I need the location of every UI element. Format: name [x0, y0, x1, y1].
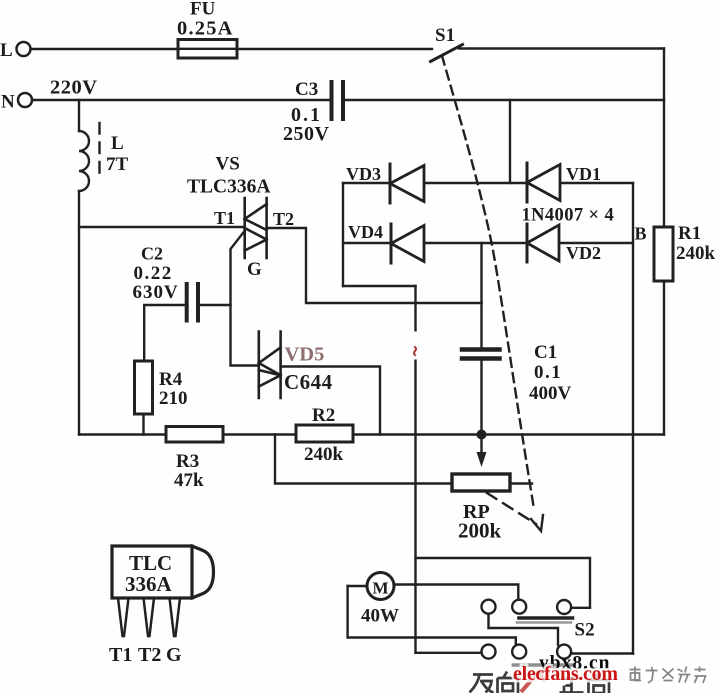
wire bridge output vertical	[414, 286, 416, 653]
svg-text:0.1: 0.1	[534, 362, 562, 383]
svg-text:T2: T2	[273, 209, 294, 229]
svg-text:7T: 7T	[106, 154, 129, 175]
wire right vertical top	[663, 49, 665, 228]
wire N row left	[32, 99, 330, 101]
svg-text:C1: C1	[534, 342, 557, 363]
svg-text:G: G	[247, 259, 262, 280]
wire bridge row2	[343, 242, 391, 244]
svg-text:0.25A: 0.25A	[177, 18, 234, 40]
S2 contact F	[557, 645, 571, 659]
wire T1	[79, 226, 245, 228]
wire T2	[267, 228, 482, 303]
wire motor left	[348, 585, 367, 587]
diac VD5 C644	[259, 332, 281, 399]
svg-text:L: L	[111, 133, 124, 154]
text zhengxiang	[560, 674, 610, 693]
S2 contact A	[482, 600, 496, 614]
RP wiper arrow	[480, 439, 482, 457]
dashed linkage RP branch	[487, 493, 536, 524]
diode VD2	[527, 224, 559, 262]
svg-text:G: G	[166, 644, 182, 666]
svg-text:40W: 40W	[361, 606, 399, 627]
S2 contact C	[557, 600, 571, 614]
S2 contact B	[512, 600, 526, 614]
svg-text:S1: S1	[435, 25, 455, 46]
wire A to F	[489, 614, 559, 645]
wire left vertical upper	[78, 100, 80, 131]
wire to contact D	[416, 652, 482, 654]
package legs	[118, 598, 180, 636]
wire F to B line	[571, 652, 633, 654]
triac VS TLC336A	[245, 198, 267, 258]
svg-text:C3: C3	[295, 79, 318, 100]
svg-text:C2: C2	[141, 244, 163, 264]
svg-text:B: B	[635, 224, 647, 244]
wire C2 left to R4	[144, 305, 187, 361]
wire main row seg3	[353, 433, 664, 435]
svg-text:R1: R1	[678, 223, 701, 244]
svg-text:T2: T2	[138, 644, 161, 666]
bridge left vertical	[342, 183, 344, 286]
diode VD3	[390, 164, 424, 203]
node junction dot	[477, 430, 487, 440]
svg-text:0.22: 0.22	[134, 263, 173, 284]
diode VD1	[527, 163, 560, 202]
terminal L	[17, 42, 31, 56]
svg-text:L: L	[0, 40, 13, 61]
wire left vertical lower	[78, 191, 80, 435]
svg-text:VD1: VD1	[566, 164, 601, 184]
motor M	[367, 573, 394, 600]
svg-text:elecfans.com: elecfans.com	[513, 663, 618, 685]
svg-text:T1: T1	[109, 644, 132, 666]
diode VD4	[391, 224, 424, 263]
svg-text:400V: 400V	[529, 383, 572, 404]
fuse FU	[178, 40, 237, 59]
red caret mark	[521, 672, 545, 693]
wire junction drop x275	[275, 435, 452, 484]
svg-text:210: 210	[159, 388, 188, 409]
wire row2 drop to C1	[480, 243, 482, 303]
S2 contact D	[482, 645, 496, 659]
svg-text:R2: R2	[312, 405, 335, 426]
wire bridge row1	[343, 182, 390, 184]
svg-text:VD3: VD3	[346, 164, 381, 184]
svg-text:R4: R4	[159, 369, 183, 390]
wire main row seg2	[223, 433, 296, 435]
svg-text:630V: 630V	[133, 282, 179, 303]
svg-text:240k: 240k	[304, 444, 344, 465]
watermark CJK gray	[630, 667, 706, 684]
wire L row right	[459, 47, 664, 49]
wire R1 bottom	[663, 281, 665, 435]
watermark gap artifact on vertical wire	[411, 332, 420, 360]
wire gate G	[231, 231, 259, 366]
switch S1 blade	[431, 45, 463, 62]
wire N drop to bridge	[509, 100, 511, 183]
terminal N	[18, 93, 32, 107]
S2 blade lower	[513, 663, 573, 666]
wire S2 feed top	[416, 558, 591, 608]
svg-text:250V: 250V	[283, 123, 330, 145]
capacitor C2	[185, 284, 189, 321]
wire L row left	[31, 48, 179, 50]
svg-text:VD2: VD2	[566, 243, 601, 263]
wire C2 right	[198, 304, 231, 306]
inductor core dashed	[98, 123, 100, 181]
capacitor C3	[330, 82, 334, 119]
wire main row seg1	[79, 433, 166, 435]
dashed linkage S1 to RP	[442, 56, 534, 509]
svg-text:TLC336A: TLC336A	[187, 177, 270, 198]
svg-text:240k: 240k	[676, 243, 716, 264]
text fanxiang	[470, 672, 519, 693]
svg-text:336A: 336A	[125, 572, 173, 596]
svg-text:C644: C644	[284, 370, 333, 394]
wire node B vertical	[632, 183, 634, 654]
inductor L coil	[79, 131, 89, 191]
wire motor right	[394, 585, 518, 600]
svg-text:T1: T1	[214, 208, 235, 228]
svg-text:S2: S2	[575, 620, 595, 641]
S2 blade upper	[519, 616, 573, 620]
S2 contact E	[512, 645, 526, 659]
potentiometer RP	[452, 474, 510, 491]
wire L row mid	[237, 48, 432, 50]
resistor R1	[654, 227, 673, 281]
svg-text:220V: 220V	[50, 77, 98, 99]
resistor R4	[135, 361, 153, 414]
wire VD5 right	[281, 367, 380, 435]
svg-text:M: M	[373, 579, 389, 598]
bridge bottom wire	[343, 285, 416, 287]
svg-text:VD4: VD4	[348, 222, 383, 242]
svg-text:47k: 47k	[174, 470, 204, 491]
resistor R3	[166, 427, 223, 443]
capacitor C1	[480, 303, 482, 348]
package TLC336A body	[112, 546, 214, 598]
svg-text:N: N	[1, 92, 15, 113]
svg-text:1N4007 × 4: 1N4007 × 4	[522, 206, 615, 226]
svg-text:R3: R3	[176, 451, 199, 472]
wire RP right stub	[510, 482, 532, 484]
linkage arrowhead	[531, 515, 543, 531]
svg-text:200k: 200k	[458, 519, 502, 543]
svg-text:VS: VS	[216, 154, 240, 175]
wire N row right	[345, 99, 664, 101]
svg-text:VD5: VD5	[285, 344, 325, 366]
resistor R2	[296, 425, 353, 442]
wire R4 bottom	[142, 414, 144, 435]
